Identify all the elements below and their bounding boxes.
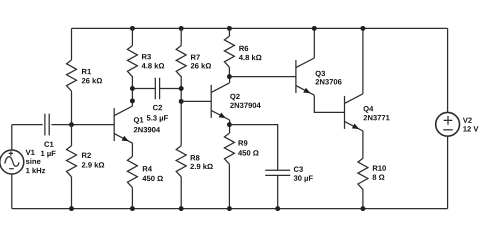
wire: Q1 collector up to C2/R3 node	[131, 76, 133, 106]
wire: R7 bottom through C2 node to R8	[180, 76, 182, 146]
R10 value label	[373, 165, 386, 179]
Q1 value label	[134, 117, 160, 132]
junction: Q1 collector pin node	[130, 98, 135, 103]
R9 value label	[238, 140, 258, 155]
R2 value label	[82, 153, 104, 168]
junction: Q4 collector at top rail	[360, 26, 365, 31]
wire: C2 right plate to R7 branch	[160, 88, 182, 90]
capacitor C2 5.3uF	[155, 78, 159, 100]
wire: V1 bottom lead to ground rail	[11, 174, 13, 209]
wire: R2 bottom to ground rail	[71, 177, 73, 209]
wire: Q4 collector to top rail	[362, 28, 364, 93]
wire: Q2 emitter down to R9 node	[229, 120, 231, 133]
wire: Q3 emitter to Q4 base	[314, 95, 344, 112]
R6 value label	[239, 46, 262, 60]
resistor R10 8 ohm	[358, 158, 368, 189]
R8 value label	[190, 155, 212, 169]
wire: Q1 emitter down to R4	[131, 143, 133, 156]
wire: bottom ground rail	[12, 208, 448, 210]
resistor R4 450	[127, 157, 137, 188]
wire: Q3 base wire	[229, 76, 296, 78]
wire: V2 bottom to ground rail	[447, 136, 449, 208]
capacitor C1 1uF	[45, 114, 49, 136]
junction: Q2 base node	[179, 99, 184, 104]
wire: R6 bottom to Q3 base node	[228, 67, 230, 76]
junction: R10 at ground rail	[360, 206, 365, 211]
transistor Q2 2N37904	[211, 83, 229, 120]
R3 value label	[142, 54, 165, 68]
capacitor C3 30uF	[265, 170, 290, 175]
resistor R9 450	[224, 133, 234, 164]
voltage source V2 12V	[436, 112, 460, 136]
Q3 value label	[315, 71, 341, 85]
wire: Q3 collector to top rail	[313, 28, 315, 58]
resistor R6 4.8k	[224, 36, 234, 67]
wire: top rail corner down to R1	[71, 28, 73, 60]
junction: R6 / Q2 collector / Q3 base node	[227, 74, 232, 79]
junction: R4 at ground rail	[130, 206, 135, 211]
resistor R1 26k	[67, 60, 77, 91]
wire: C1 right plate to Q1 base	[51, 124, 114, 126]
resistor R2 2.9k	[67, 146, 77, 177]
junction: R3 / C2 node	[130, 86, 135, 91]
junction: R7 at top rail	[179, 26, 184, 31]
wire: C3 bottom to ground rail	[277, 175, 279, 208]
wire: R10 bottom to ground rail	[362, 189, 364, 208]
R7 value label	[191, 55, 211, 69]
V2 value label	[463, 118, 479, 132]
wire: base node down to R2	[71, 125, 73, 146]
junction: C1 / R1 / R2 node	[69, 122, 74, 127]
transistor Q1 2N3904	[114, 106, 132, 143]
wire: Q2 collector up to R6 node	[229, 77, 231, 83]
Q2 value label	[230, 94, 261, 108]
junction: C2 / R7 node	[179, 86, 184, 91]
wire: top rail corner down to V2	[447, 28, 449, 112]
V1 value label	[26, 150, 46, 173]
transistor Q3 2N3706	[296, 58, 314, 95]
wire: R4 bottom to ground rail	[131, 188, 133, 209]
junction: Q2 emitter / R9 / C3 node	[227, 122, 232, 127]
junction: R6 at top rail	[227, 26, 232, 31]
junction: R2 at ground rail	[69, 206, 74, 211]
wire: V1 top lead (input node to source)	[11, 125, 13, 150]
resistor R7 26k	[176, 46, 186, 77]
transistor Q4 2N3771	[345, 94, 363, 131]
junction: R9 at ground rail	[227, 206, 232, 211]
wire: Q4 emitter down to R10	[362, 131, 364, 158]
wire: R1 bottom to base node	[71, 91, 73, 125]
Q4 value label	[363, 106, 389, 120]
C1 value label	[41, 142, 56, 158]
wire: R3 node to C2 left plate	[132, 88, 155, 90]
junction: R3 at top rail	[130, 26, 135, 31]
C3 value label	[294, 167, 313, 183]
resistor R8 2.9k	[176, 146, 186, 177]
wire: top rail to R6	[228, 28, 230, 36]
R4 value label	[142, 166, 162, 181]
junction: R8 at ground rail	[179, 206, 184, 211]
wire: top rail to R3	[131, 28, 133, 45]
junction: C3 at ground rail	[275, 206, 280, 211]
wire: Q2 base wire	[181, 100, 211, 102]
wire: R8 bottom to ground rail	[180, 177, 182, 209]
wire: Q2 emitter node to C3	[229, 125, 277, 171]
wire: top supply rail	[72, 27, 448, 29]
C2 value label	[147, 105, 168, 122]
R1 value label	[82, 69, 102, 84]
resistor R3 4.8k	[127, 46, 137, 77]
wire: top rail to R7	[180, 28, 182, 45]
wire: R9 bottom to ground rail	[228, 164, 230, 208]
wire: input node to C1 left plate	[12, 124, 43, 126]
junction: Q3 collector at top rail	[312, 26, 317, 31]
voltage source V1 (sine, 1 kHz)	[0, 150, 24, 174]
